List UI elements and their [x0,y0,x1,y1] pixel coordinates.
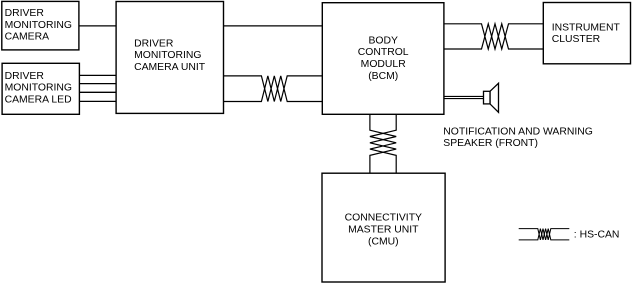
twisted pair BCM to CMU [370,114,396,173]
svg-text:DRIVER: DRIVER [5,8,45,19]
svg-text:BODY: BODY [368,35,398,46]
box driver monitoring camera unit [116,2,223,114]
wire LED line 2 [79,83,116,85]
svg-text:(BCM): (BCM) [368,71,398,82]
box driver monitoring camera [2,1,79,50]
twisted pair camera unit to BCM [224,76,323,102]
wire LED line 1 [79,74,116,76]
svg-text:: HS-CAN: : HS-CAN [574,229,620,240]
wire camera to camera unit [79,25,116,27]
box driver monitoring camera LED [2,63,79,114]
box instrument cluster [543,3,630,64]
svg-text:CLUSTER: CLUSTER [552,34,601,45]
box connectivity master unit CMU [322,173,445,282]
svg-text:CAMERA UNIT: CAMERA UNIT [134,62,206,73]
box body control module BCM [322,3,444,115]
svg-text:INSTRUMENT: INSTRUMENT [552,22,621,33]
wire camera unit to BCM [224,25,323,27]
svg-text:SPEAKER (FRONT): SPEAKER (FRONT) [443,138,538,149]
svg-text:MONITORING: MONITORING [5,20,72,31]
svg-text:CAMERA LED: CAMERA LED [5,95,72,106]
svg-text:CAMERA: CAMERA [5,32,50,43]
svg-text:DRIVER: DRIVER [5,71,45,82]
legend HS-CAN symbol [519,229,570,240]
svg-text:MONITORING: MONITORING [134,50,201,61]
svg-text:NOTIFICATION AND WARNING: NOTIFICATION AND WARNING [443,127,593,138]
wire BCM to speaker (double line) [444,95,484,97]
wire LED line 4 [79,100,116,102]
svg-text:CONTROL: CONTROL [358,47,409,58]
svg-text:CONNECTIVITY: CONNECTIVITY [345,212,422,223]
twisted pair BCM to instrument cluster [444,24,543,49]
svg-text:DRIVER: DRIVER [134,38,174,49]
wire LED line 3 [79,91,116,93]
svg-text:MONITORING: MONITORING [5,83,72,94]
svg-text:(CMU): (CMU) [368,237,399,248]
svg-text:MODULR: MODULR [361,59,407,70]
svg-text:MASTER UNIT: MASTER UNIT [348,225,419,236]
speaker icon [484,83,499,112]
